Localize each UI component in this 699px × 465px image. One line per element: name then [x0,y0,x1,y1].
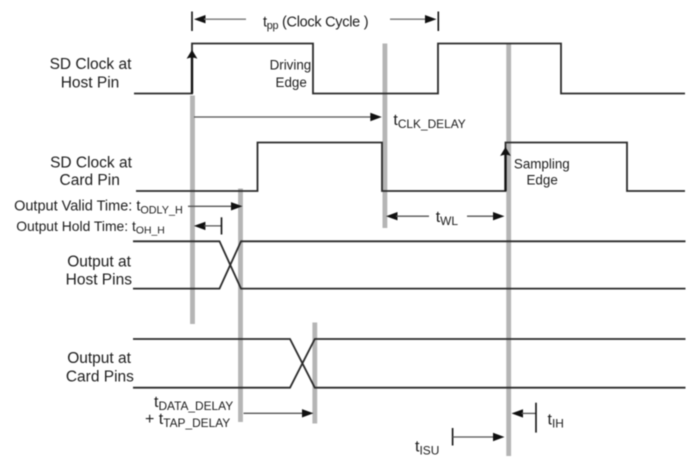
gray marker bar 5 (card data valid marker) [312,323,317,424]
driving edge bold arrow [191,57,193,94]
bus waveform: Output at Host Pins [133,241,686,288]
svg-text:Sampling: Sampling [514,157,570,172]
svg-text:Driving: Driving [270,58,312,73]
svg-text:Card Pins: Card Pins [66,368,134,385]
svg-text:Output at: Output at [67,254,131,271]
gray marker bar 1 (driving edge extension) [190,96,195,325]
annotation: tWL [386,212,398,220]
annotation: tpp (Clock Cycle) [191,12,193,32]
annotation: tCLK_DELAY [194,116,372,118]
gray marker bar 3 (clock delay marker) [383,44,388,229]
annotation: tIH [512,409,524,417]
svg-text:Edge: Edge [276,75,307,90]
svg-text:Card Pin: Card Pin [60,172,120,189]
svg-text:Edge: Edge [527,172,558,187]
svg-text:SD Clock at: SD Clock at [50,155,133,172]
svg-text:Host Pin: Host Pin [61,75,120,92]
svg-text:Output at: Output at [67,350,131,367]
svg-text:tpp (Clock Cycle ): tpp (Clock Cycle ) [263,14,368,32]
gray marker bar 2 (output valid marker) [238,189,243,423]
sampling edge bold arrow [504,155,506,192]
waveform: SD Clock at Host Pin [134,44,685,94]
waveform: SD Clock at Card Pin [136,143,685,192]
gray marker bar 4 (sampling edge marker) [506,44,511,457]
bus waveform: Output at Card Pins [133,339,686,388]
svg-text:Host Pins: Host Pins [66,272,133,289]
svg-text:SD Clock at: SD Clock at [50,56,133,73]
